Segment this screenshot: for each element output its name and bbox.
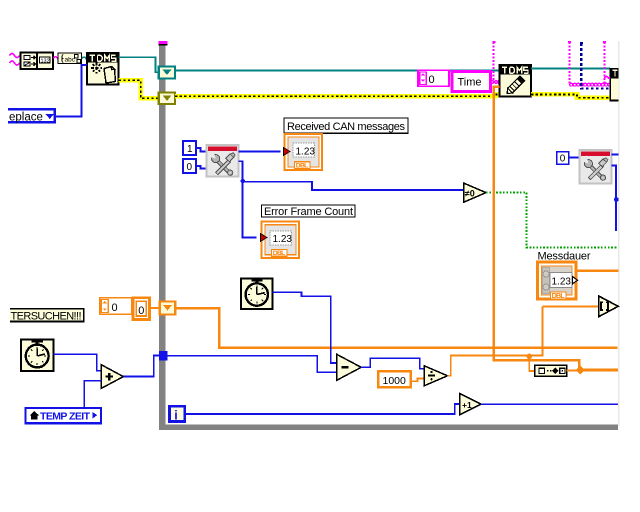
wire: pink dotted horizontal into TDMS2 [570, 83, 611, 86]
shift register left terminal (error, olive) [159, 93, 175, 105]
wire: thick orange to right edge [583, 368, 618, 371]
shift register left terminal (DBL, orange) [160, 302, 176, 315]
indicator: Received CAN messages (DBL) [284, 134, 323, 170]
wire: subtract to divide (with jogs) [361, 358, 424, 369]
local variable: TEMP ZEIT [26, 408, 102, 423]
wire: clipped cluster wire (pink dotted vertical 2) [568, 41, 571, 85]
indicator: Messdauer (express DBL) [538, 262, 578, 300]
svg-text:+1: +1 [462, 400, 472, 410]
coercion dot: divide input [424, 366, 429, 372]
label: Received CAN messages [284, 118, 408, 133]
wire: Messdauer to right edge [576, 270, 618, 272]
wire: path from TDMS Open into loop [119, 57, 160, 72]
inner structure edge line (right) [618, 41, 619, 426]
subVI icon: CAN tools U2 [207, 145, 239, 177]
junction diamond orange [576, 366, 585, 375]
numeric constant 0 (DBL orange) [133, 298, 150, 320]
svg-text:1: 1 [187, 144, 193, 155]
wire: tunnel to subtract lower input [168, 356, 338, 373]
wire: refnum inside loop to TDMS Write [175, 69, 499, 71]
svg-text:i: i [174, 409, 177, 423]
svg-text:Error Frame Count: Error Frame Count [264, 206, 353, 218]
while loop bottom border [159, 425, 618, 431]
arithmetic node: add [101, 365, 123, 389]
svg-text:TERSUCHEN!!!: TERSUCHEN!!! [11, 311, 82, 323]
svg-text:Time: Time [458, 77, 482, 89]
while loop left border bar [159, 46, 166, 431]
wire: pink broken input squiggle 2 [10, 61, 20, 65]
wire: pink squiggle into TDMS2 [605, 77, 611, 79]
wire: boolean dotted from not-equal-zero [486, 192, 618, 247]
node: TDMS2 (clipped at structure edge) [609, 68, 618, 102]
arithmetic node: divide [424, 366, 447, 386]
svg-text:≠0: ≠0 [465, 188, 475, 198]
numeric constant 0 with spinner (shift register init) [100, 298, 132, 315]
comparison node: not equal to 0 [464, 183, 487, 202]
wire: increment output to right edge [481, 403, 618, 405]
wire: enum to TDMS Open [56, 65, 87, 117]
svg-text:0: 0 [112, 302, 118, 314]
svg-text:132: 132 [41, 58, 50, 64]
junction dot orange [527, 354, 533, 360]
svg-text:0: 0 [560, 154, 566, 165]
svg-text:eplace: eplace [9, 112, 43, 124]
wire: pink broken input squiggle 1 [10, 54, 20, 58]
wire: CAN VI 2 output down right edge [611, 166, 616, 232]
svg-text:0: 0 [187, 162, 193, 173]
wire: teal path squiggle [82, 57, 87, 59]
wire: const to CAN VI 2 [569, 157, 579, 159]
wire: error TDMS Write to TDMS2 (with jog) [531, 94, 610, 97]
wire: const to shift register [150, 307, 160, 309]
pink wire cap on loop border top [159, 41, 168, 46]
node: tick count clock (inside loop) [241, 278, 273, 309]
svg-text:1000: 1000 [383, 375, 407, 387]
node: TDMS Open U1 [86, 52, 120, 85]
arithmetic node: subtract [337, 354, 362, 380]
wire: const 1 to CAN VI [196, 148, 207, 152]
wire: junction down to convert node [529, 356, 534, 371]
node: tick count clock (outside loop) [21, 339, 54, 371]
svg-text:0: 0 [138, 305, 144, 317]
wire: CAN VI 2 top output stub [611, 154, 618, 156]
node: TDMS Write U3 [498, 64, 532, 96]
wire: Time string to TDMS Write (pink dotted) [491, 81, 500, 84]
wire: clipped timestamp wire (navy dashed) [580, 42, 610, 89]
node: flatten-to-string icon [21, 53, 54, 70]
wire: CAN VI to Received indicator [239, 151, 281, 153]
wire: clipped cluster wire (pink dotted vertical 1) [492, 41, 495, 80]
svg-text:TEMP ZEIT: TEMP ZEIT [40, 411, 91, 423]
subVI icon: CAN tools U4 [579, 150, 611, 184]
node: string-to-path (abc) [58, 53, 82, 64]
junction dot on blue vertical [614, 197, 619, 202]
svg-text:DBL: DBL [552, 293, 566, 300]
svg-text:0: 0 [429, 74, 435, 86]
svg-text:1.23: 1.23 [296, 147, 316, 158]
indicator: Error Frame Count (DBL) [261, 222, 300, 259]
wire: pink squiggle between nodes [54, 57, 60, 59]
wire: divide output up and right to junction [448, 356, 530, 376]
svg-text:1.23: 1.23 [273, 234, 293, 245]
label: Error Frame Count [262, 205, 356, 218]
wire: clock to add node [54, 354, 102, 370]
junction dot [241, 179, 245, 183]
iteration terminal i [170, 406, 185, 422]
svg-text:DBL: DBL [296, 163, 309, 170]
node: index array [] [599, 296, 619, 317]
wire: clock to subtract [273, 292, 337, 363]
wire: TEMP ZEIT up to add [84, 381, 101, 408]
wire: i to increment [185, 404, 460, 414]
numeric constant 0 [183, 159, 196, 173]
wire: error cluster from TDMS Open to loop tunnel [119, 80, 159, 98]
wire: DBL vertical from TDMS Write (orange trunk) [494, 87, 579, 371]
numeric constant 0 (right) [557, 152, 569, 165]
svg-text:1.23: 1.23 [552, 276, 572, 287]
wire: refnum TDMS Write to TDMS2 [531, 68, 610, 70]
numeric control 0 with magenta frame [418, 70, 449, 86]
shift register left terminal (refnum, teal) [159, 67, 175, 79]
wire: junction up-branch to index array feed [529, 306, 542, 355]
enum constant (replace) [8, 108, 56, 124]
svg-text:Received CAN messages: Received CAN messages [287, 121, 406, 133]
loop tunnel (blue, solid) [159, 351, 168, 360]
wire: error cluster inside loop to TDMS Write [175, 95, 499, 97]
svg-text:DBL: DBL [273, 250, 286, 257]
wire: add output to loop tunnel [123, 356, 158, 377]
wire: const 0 to CAN VI [196, 166, 207, 169]
wire: branch to index array [543, 305, 599, 307]
wire: junction to not-equal-zero [243, 182, 464, 190]
label: TERSUCHEN!!! [10, 308, 85, 323]
wire: shift register DBL long orange [175, 308, 617, 348]
string constant Time (magenta frame) [452, 71, 490, 91]
numeric constant 1 [183, 141, 196, 155]
arithmetic node: increment +1 [460, 393, 482, 415]
wire: 1000 to divide [411, 379, 425, 382]
node: coercion/convert (small) [535, 365, 567, 376]
wire: convert node output [567, 370, 578, 372]
wire: clipped cluster wire (pink dotted vertical 3) [603, 41, 606, 83]
wire: CAN VI second output down junction [239, 161, 257, 237]
numeric constant 1000 [378, 371, 410, 387]
